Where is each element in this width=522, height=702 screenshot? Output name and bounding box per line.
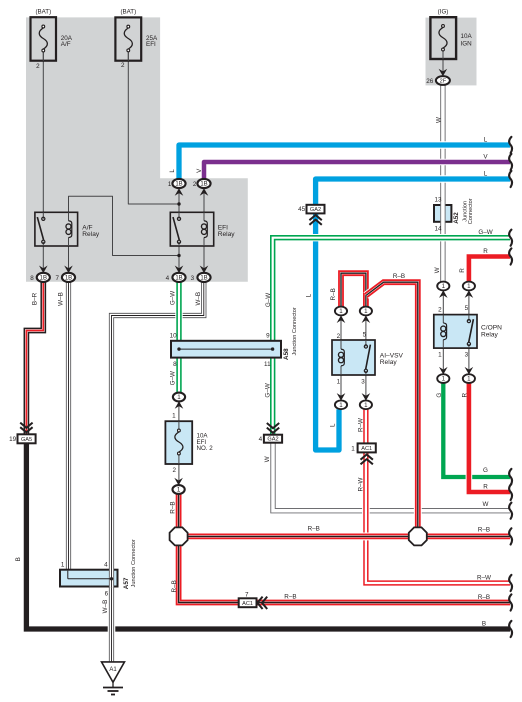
svg-text:W: W [483, 501, 489, 508]
svg-text:Junction Connector: Junction Connector [292, 307, 298, 355]
svg-text:A58: A58 [283, 348, 290, 360]
svg-text:1: 1 [168, 181, 172, 188]
svg-text:G–W: G–W [169, 371, 176, 385]
svg-text:1: 1 [177, 394, 181, 401]
svg-text:2F: 2F [440, 79, 447, 85]
svg-text:R–B: R–B [478, 526, 490, 533]
svg-text:1: 1 [442, 283, 446, 290]
svg-text:L: L [330, 423, 337, 427]
svg-text:5: 5 [363, 332, 367, 339]
svg-text:1: 1 [364, 308, 368, 315]
svg-text:11: 11 [264, 361, 271, 368]
svg-text:1: 1 [61, 561, 65, 568]
svg-text:1: 1 [177, 487, 181, 494]
svg-text:A1: A1 [109, 667, 117, 673]
svg-text:A52: A52 [453, 212, 460, 224]
svg-text:19: 19 [9, 436, 17, 443]
svg-text:R–B: R–B [478, 594, 490, 601]
svg-text:1: 1 [467, 376, 471, 383]
svg-text:AC1: AC1 [361, 446, 372, 452]
svg-text:R–B: R–B [308, 526, 320, 533]
svg-text:NO. 2: NO. 2 [197, 445, 214, 452]
svg-text:7: 7 [245, 591, 249, 598]
svg-text:Junction Connector: Junction Connector [131, 539, 137, 587]
svg-text:GA5: GA5 [21, 437, 32, 443]
svg-text:(BAT): (BAT) [120, 9, 136, 16]
svg-text:R–B: R–B [284, 594, 296, 601]
svg-text:R–W: R–W [358, 477, 365, 491]
svg-text:7: 7 [55, 275, 59, 282]
svg-text:1: 1 [467, 283, 471, 290]
svg-text:L: L [484, 137, 488, 144]
svg-text:R: R [459, 268, 466, 273]
svg-text:1B: 1B [175, 182, 182, 188]
svg-text:1B: 1B [200, 276, 207, 282]
svg-text:Relay: Relay [82, 231, 100, 238]
svg-text:4: 4 [104, 561, 108, 568]
svg-text:L: L [484, 171, 488, 178]
svg-text:45: 45 [298, 206, 306, 213]
svg-text:A57: A57 [123, 577, 130, 589]
svg-text:1B: 1B [40, 276, 47, 282]
svg-text:6: 6 [105, 590, 109, 597]
svg-text:Relay: Relay [380, 359, 398, 366]
svg-text:10: 10 [170, 332, 178, 339]
svg-text:W–B: W–B [102, 600, 109, 614]
svg-text:R–W: R–W [358, 418, 365, 432]
svg-text:8: 8 [173, 361, 177, 368]
svg-text:1B: 1B [65, 276, 72, 282]
svg-text:R–W: R–W [477, 574, 491, 581]
svg-text:G–W: G–W [265, 293, 272, 307]
svg-text:L: L [169, 169, 176, 173]
svg-text:G: G [483, 467, 488, 474]
svg-text:G–W: G–W [478, 229, 492, 236]
svg-text:(IG): (IG) [438, 9, 449, 16]
svg-text:Relay: Relay [481, 331, 499, 338]
svg-text:GA2: GA2 [310, 207, 321, 213]
svg-text:G–W: G–W [169, 291, 176, 305]
svg-text:9: 9 [266, 332, 270, 339]
svg-text:1: 1 [337, 378, 341, 385]
svg-text:G–W: G–W [265, 383, 272, 397]
svg-text:R: R [483, 248, 488, 255]
svg-text:B: B [482, 620, 486, 627]
svg-text:B–R: B–R [31, 292, 38, 305]
svg-text:2: 2 [438, 307, 442, 314]
svg-text:R: R [483, 483, 488, 490]
svg-text:R–B: R–B [393, 273, 405, 280]
svg-text:1: 1 [339, 308, 343, 315]
svg-text:AC1: AC1 [242, 601, 253, 607]
svg-text:3: 3 [361, 378, 365, 385]
svg-text:R: R [462, 392, 469, 397]
svg-text:13: 13 [435, 196, 443, 203]
svg-text:EFI: EFI [146, 41, 156, 48]
svg-text:5: 5 [465, 305, 469, 312]
svg-text:Relay: Relay [218, 231, 236, 238]
svg-text:1: 1 [442, 376, 446, 383]
svg-text:1: 1 [351, 445, 355, 452]
svg-text:W–B: W–B [195, 292, 202, 306]
svg-text:A/F: A/F [61, 41, 71, 48]
svg-text:W–B: W–B [58, 292, 65, 306]
svg-text:1: 1 [172, 412, 176, 419]
svg-text:1B: 1B [200, 182, 207, 188]
svg-text:B: B [15, 557, 22, 561]
svg-text:Connector: Connector [468, 198, 474, 224]
svg-text:1B: 1B [175, 276, 182, 282]
svg-text:10A: 10A [461, 33, 473, 40]
svg-text:2: 2 [121, 62, 125, 69]
svg-text:2: 2 [193, 181, 197, 188]
svg-text:4: 4 [166, 275, 170, 282]
svg-text:4: 4 [259, 436, 263, 443]
svg-text:L: L [306, 293, 313, 297]
svg-text:R–B: R–B [330, 288, 337, 300]
svg-text:2: 2 [337, 333, 341, 340]
svg-text:GA2: GA2 [267, 437, 278, 443]
svg-text:G: G [436, 393, 443, 398]
svg-text:1: 1 [438, 352, 442, 359]
svg-text:2: 2 [172, 467, 176, 474]
svg-text:W: W [264, 456, 271, 462]
svg-text:IGN: IGN [461, 41, 473, 48]
svg-text:R–B: R–B [171, 580, 178, 592]
svg-text:R–B: R–B [169, 501, 176, 513]
svg-text:26: 26 [426, 78, 434, 85]
svg-text:(BAT): (BAT) [35, 9, 51, 16]
svg-text:14: 14 [435, 226, 443, 233]
svg-text:W: W [434, 267, 441, 273]
svg-text:2: 2 [36, 63, 40, 70]
svg-text:3: 3 [465, 352, 469, 359]
svg-text:8: 8 [30, 275, 34, 282]
svg-text:1: 1 [339, 402, 343, 409]
svg-text:3: 3 [191, 275, 195, 282]
svg-text:W: W [436, 117, 443, 123]
svg-text:1: 1 [364, 402, 368, 409]
